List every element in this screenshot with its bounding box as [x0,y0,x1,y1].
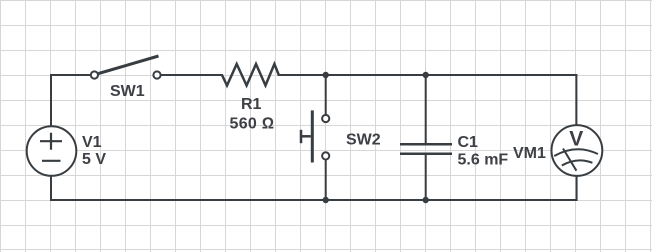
voltage source V1 [27,126,77,176]
wire: C1 bottom lead [425,155,427,200]
junction top SW2 node [323,72,329,78]
svg-text:V: V [569,127,583,150]
wire: SW2 top lead [325,75,327,115]
pushbutton SW2 [301,110,329,162]
wire: voltmeter top lead [575,75,577,126]
svg-text:5 V: 5 V [82,151,106,168]
svg-text:5.6 mF: 5.6 mF [458,152,509,169]
junction bottom C1 node [423,197,429,203]
junction bottom SW2 node [323,197,329,203]
capacitor C1 [400,144,452,154]
wire: top rail left segment to SW1 [51,74,90,76]
wire: V1 top lead up to top rail [50,75,52,126]
svg-text:SW2: SW2 [346,132,381,149]
wire: top rail SW1 to resistor [161,74,222,76]
wire: bottom rail [51,199,576,201]
junction top C1 node [423,72,429,78]
svg-text:560 Ω: 560 Ω [230,115,275,132]
wire: SW2 bottom lead [325,159,327,200]
svg-text:V1: V1 [82,134,102,151]
wire: C1 top lead [425,75,427,143]
wire: top rail resistor to voltmeter corner [279,74,577,76]
resistor R1 [222,64,279,86]
wire: voltmeter bottom lead [576,176,578,200]
svg-text:SW1: SW1 [110,83,145,100]
svg-text:R1: R1 [241,96,262,113]
wire: V1 bottom lead [50,177,52,200]
svg-text:VM1: VM1 [513,145,546,162]
voltmeter VM1 [552,125,603,176]
svg-text:C1: C1 [458,134,479,151]
switch SW1 [91,56,161,79]
